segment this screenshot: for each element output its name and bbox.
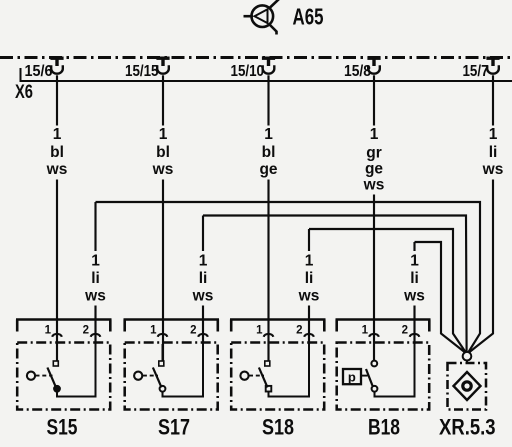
svg-text:ws: ws <box>403 288 425 305</box>
switch S15 <box>16 320 112 410</box>
svg-text:ws: ws <box>482 161 504 178</box>
svg-text:S17: S17 <box>158 415 190 440</box>
svg-text:1: 1 <box>199 253 208 270</box>
svg-text:1: 1 <box>305 253 314 270</box>
svg-text:ws: ws <box>298 288 320 305</box>
wire S15 pin 2 to node XR.5.3 <box>96 202 481 352</box>
svg-text:ws: ws <box>363 177 385 194</box>
svg-text:X6: X6 <box>15 82 33 103</box>
svg-text:ge: ge <box>259 161 277 178</box>
svg-text:1: 1 <box>370 126 379 143</box>
svg-text:15/15: 15/15 <box>125 63 159 80</box>
svg-text:2: 2 <box>83 325 89 337</box>
svg-text:p: p <box>348 370 356 385</box>
svg-text:2: 2 <box>190 325 196 337</box>
svg-text:1: 1 <box>410 253 419 270</box>
svg-text:1: 1 <box>91 253 100 270</box>
svg-text:1: 1 <box>159 126 168 143</box>
svg-text:15/6: 15/6 <box>25 63 53 80</box>
svg-text:ws: ws <box>46 161 68 178</box>
svg-text:15/7: 15/7 <box>463 63 489 80</box>
wire S18 pin 2 to node XR.5.3 <box>309 229 466 352</box>
svg-text:li: li <box>489 144 498 161</box>
wire value label 1 bl ws <box>46 126 68 178</box>
connector pin 15/7 <box>486 58 499 74</box>
svg-text:ge: ge <box>365 161 383 178</box>
svg-text:ws: ws <box>192 288 214 305</box>
svg-text:li: li <box>199 270 208 287</box>
svg-text:ws: ws <box>152 161 174 178</box>
svg-text:1: 1 <box>256 325 263 337</box>
svg-text:2: 2 <box>402 325 408 337</box>
wire S17 pin 2 to node XR.5.3 <box>203 216 467 352</box>
connector pin 15/8 <box>367 58 380 74</box>
wire value label 1 bl ws <box>152 126 174 178</box>
wire value label 1 li ws <box>482 126 504 178</box>
svg-text:1: 1 <box>362 325 369 337</box>
switch S18 <box>230 320 326 410</box>
wire value label 1 bl ge <box>259 126 277 178</box>
svg-text:bl: bl <box>50 144 64 161</box>
connector XR.5.3 <box>448 363 487 410</box>
svg-text:2: 2 <box>296 325 302 337</box>
svg-text:15/10: 15/10 <box>231 63 265 80</box>
svg-text:15/8: 15/8 <box>344 63 371 80</box>
pressure switch B18 <box>336 320 431 410</box>
svg-text:ws: ws <box>84 288 106 305</box>
svg-text:li: li <box>91 270 100 287</box>
svg-text:bl: bl <box>262 144 276 161</box>
wire 15/6 to S15 pin 1 <box>56 75 58 361</box>
svg-text:1: 1 <box>53 126 62 143</box>
svg-text:B18: B18 <box>368 415 400 440</box>
connector strip X6 <box>20 68 512 81</box>
control module symbol A65 <box>244 0 280 35</box>
svg-text:li: li <box>305 270 314 287</box>
wire B18 pin 2 to node XR.5.3 <box>415 242 465 352</box>
svg-text:A65: A65 <box>293 4 324 30</box>
wire value label 1 li ws <box>298 253 320 305</box>
wire 15/7 to node XR.5.3 <box>470 75 494 352</box>
wire 15/8 to B18 pin 1 <box>373 75 375 360</box>
wire value label 1 li ws <box>403 253 425 305</box>
node junction above XR.5.3 <box>463 352 472 364</box>
svg-text:XR.5.3: XR.5.3 <box>439 415 496 440</box>
svg-text:1: 1 <box>264 126 273 143</box>
wire value label 1 gr ge ws <box>363 126 385 194</box>
svg-text:1: 1 <box>150 325 157 337</box>
wire 15/10 to S18 pin 1 <box>267 75 269 361</box>
svg-text:1: 1 <box>489 126 498 143</box>
wire 15/15 to S17 pin 1 <box>162 75 164 361</box>
svg-text:li: li <box>410 270 419 287</box>
connector pin 15/10 <box>262 58 275 74</box>
svg-text:1: 1 <box>45 325 52 337</box>
svg-text:bl: bl <box>156 144 170 161</box>
connector pin 15/6 <box>50 58 63 74</box>
bus line (A65 module boundary, dash-dot) <box>0 56 512 59</box>
svg-text:S18: S18 <box>262 415 294 440</box>
connector pin 15/15 <box>156 58 169 74</box>
wire value label 1 li ws <box>84 253 106 305</box>
switch S17 <box>124 320 220 410</box>
svg-text:gr: gr <box>366 145 382 162</box>
wire value label 1 li ws <box>192 253 214 305</box>
svg-text:S15: S15 <box>47 415 78 440</box>
